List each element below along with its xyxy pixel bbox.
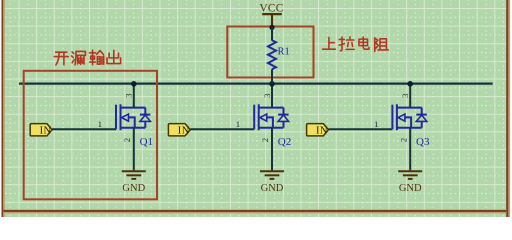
port IN (Q3 input) xyxy=(307,124,329,136)
svg-text:Q2: Q2 xyxy=(278,136,291,148)
svg-text:VCC: VCC xyxy=(259,2,283,14)
wire: source of Q1 to ground xyxy=(133,128,135,171)
svg-text:GND: GND xyxy=(122,183,145,194)
annotation box around pull-up resistor R1 xyxy=(227,27,313,78)
svg-text:2: 2 xyxy=(260,138,270,142)
svg-text:GND: GND xyxy=(261,183,284,194)
wire: drain of Q2 to bus xyxy=(271,83,273,108)
sheet border left xyxy=(2,0,4,217)
junction dot on bus at Q1 drain xyxy=(131,81,137,87)
svg-text:2: 2 xyxy=(122,138,132,142)
resistor R1 (zigzag) xyxy=(268,40,276,69)
svg-text:3: 3 xyxy=(400,93,410,98)
wire: gate input wire Q3 xyxy=(329,128,393,130)
svg-text:2: 2 xyxy=(398,138,408,142)
wire: source of Q2 to ground xyxy=(271,128,273,171)
label text: 开漏输出 (open-drain output) xyxy=(54,50,120,65)
transistor Q2 (NMOS symbol) xyxy=(254,104,288,130)
svg-text:IN: IN xyxy=(316,126,328,137)
junction dot on bus at Q3 drain xyxy=(407,81,413,87)
wire: source of Q3 to ground xyxy=(409,128,411,171)
wire: gate input wire Q1 xyxy=(52,128,116,130)
annotation box around open-drain outputs (Q1) xyxy=(24,71,157,200)
wire: drain of Q3 to bus xyxy=(409,83,411,108)
wire: drain of Q1 to bus xyxy=(133,83,135,108)
svg-text:GND: GND xyxy=(399,183,422,194)
svg-text:R1: R1 xyxy=(278,47,290,58)
transistor Q3 (NMOS symbol) xyxy=(392,104,426,130)
svg-text:IN: IN xyxy=(178,126,190,137)
wire: VCC node to resistor R1 xyxy=(271,27,273,40)
svg-text:Q3: Q3 xyxy=(416,136,430,148)
transistor Q1 (NMOS symbol) xyxy=(116,104,150,130)
svg-text:1: 1 xyxy=(98,119,102,129)
junction dot at VCC / R1 node xyxy=(269,25,274,30)
svg-text:1: 1 xyxy=(374,119,378,129)
svg-text:Q1: Q1 xyxy=(140,136,153,148)
ground symbol GND at Q1 source xyxy=(122,171,146,179)
sheet border right xyxy=(506,0,508,217)
ground symbol GND at Q3 source xyxy=(398,171,422,179)
wire: resistor R1 to bus xyxy=(271,69,273,83)
wire: gate input wire Q2 xyxy=(190,128,254,130)
svg-text:3: 3 xyxy=(262,93,272,98)
sheet border bottom xyxy=(3,210,506,212)
label text: 上拉电阻 (pull-up resistor) xyxy=(323,37,389,52)
wire: shared open-drain bus xyxy=(19,82,493,84)
ground symbol GND at Q2 source xyxy=(260,171,284,179)
svg-text:3: 3 xyxy=(124,93,134,98)
svg-text:1: 1 xyxy=(236,119,240,129)
port IN (Q1 input) xyxy=(30,124,52,136)
junction dot on bus at Q2 drain xyxy=(269,81,275,87)
port IN (Q2 input) xyxy=(168,124,190,136)
svg-text:IN: IN xyxy=(40,126,52,137)
